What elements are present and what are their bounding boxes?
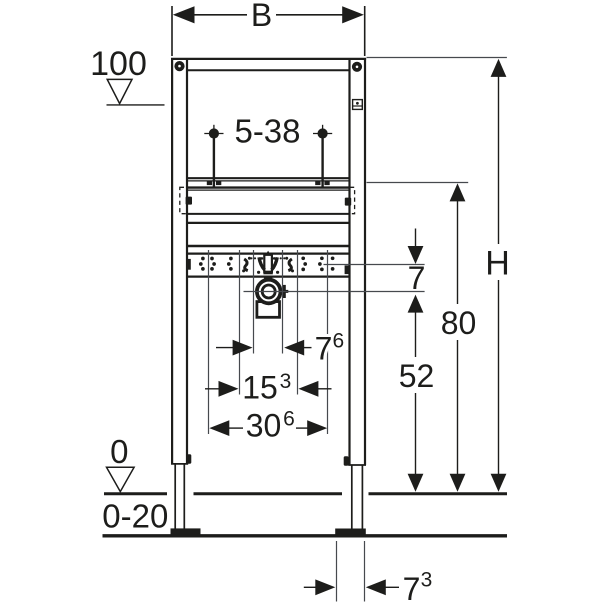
svg-text:0: 0 bbox=[110, 433, 128, 470]
channel end tab left bbox=[187, 259, 191, 270]
dimension 15-3 right arrow bbox=[298, 381, 318, 397]
dimension 80 down arrow bbox=[450, 474, 466, 492]
dimension 7-6 left arrow bbox=[216, 347, 234, 349]
dimension B arrow right bbox=[342, 6, 364, 23]
screw head top-left bbox=[174, 61, 184, 71]
svg-text:52: 52 bbox=[399, 358, 435, 394]
extension line vertical 15-3 right bbox=[297, 250, 299, 395]
svg-text:B: B bbox=[251, 0, 272, 33]
svg-text:7: 7 bbox=[408, 260, 426, 296]
extension line horizontal channel centre bbox=[324, 264, 425, 266]
dimension 30-6 arrow right bbox=[307, 420, 327, 436]
dimension B arrow left bbox=[173, 6, 195, 23]
dimension H line lower bbox=[498, 280, 500, 476]
svg-text:3: 3 bbox=[421, 569, 433, 592]
raw floor line bbox=[103, 534, 508, 537]
left foot plate bbox=[171, 528, 201, 535]
dimension B line left segment bbox=[193, 14, 247, 16]
channel end tab right bbox=[345, 265, 350, 274]
dimension 7-3 left arrow bbox=[304, 586, 317, 588]
dimension 52 down arrow bbox=[408, 474, 424, 492]
anchor point left crosshair bbox=[204, 125, 223, 140]
waste pipe neck bbox=[264, 276, 273, 282]
extension line vertical 7-6 right bbox=[282, 250, 284, 354]
svg-text:30: 30 bbox=[246, 407, 282, 443]
dimension H up arrow bbox=[491, 59, 507, 77]
anchor point right crosshair bbox=[313, 125, 332, 140]
channel S-slot left bbox=[244, 259, 248, 271]
dimension 30-6 line left bbox=[227, 427, 243, 429]
anchor rod right bbox=[321, 138, 323, 187]
dimension B extension line left bbox=[171, 6, 173, 56]
dashed outline of bracket plate bbox=[180, 187, 355, 213]
extension line 7-3 left bbox=[336, 541, 338, 602]
dimension 80 line upper bbox=[457, 200, 459, 304]
dimension 30-6 line right bbox=[296, 427, 310, 429]
level symbol triangle 100 bbox=[107, 79, 132, 103]
dimension B line right segment bbox=[276, 14, 344, 16]
right foot tube bbox=[351, 465, 353, 529]
dimension 52 line upper bbox=[415, 311, 417, 357]
svg-text:0-20: 0-20 bbox=[102, 497, 168, 534]
rod clamp right bbox=[315, 181, 320, 185]
perforated channel bottom line bbox=[188, 276, 350, 278]
svg-text:H: H bbox=[485, 244, 510, 282]
waste pipe socket inner ring bbox=[262, 285, 275, 298]
dimension H line upper bbox=[498, 75, 500, 244]
left foot tube bbox=[174, 464, 176, 529]
perforated channel top line bbox=[188, 253, 350, 255]
extension line horizontal waste centre bbox=[244, 291, 425, 293]
left rail outer line bbox=[171, 58, 173, 464]
bracket clip left bbox=[186, 197, 192, 205]
finished floor line segments bbox=[104, 492, 167, 495]
svg-text:7: 7 bbox=[403, 571, 421, 607]
svg-text:15: 15 bbox=[242, 370, 278, 406]
extension line vertical 30-6 right bbox=[327, 250, 329, 434]
dimension H down arrow bbox=[491, 474, 507, 492]
extension line 7-3 right bbox=[364, 541, 366, 602]
svg-text:3: 3 bbox=[280, 370, 292, 393]
extension line H top bbox=[367, 57, 507, 59]
extension line vertical 15-3 left bbox=[239, 250, 241, 395]
right leg locking clip bbox=[344, 456, 349, 466]
crossbar box top line bbox=[188, 222, 350, 224]
faucet fitting crown in channel bbox=[257, 251, 279, 274]
extension line vertical 7-6 left bbox=[253, 250, 255, 354]
extension line 80 top bbox=[367, 182, 469, 184]
svg-text:7: 7 bbox=[315, 330, 333, 366]
screw head top-right bbox=[352, 62, 362, 72]
bracket plate top thick line bbox=[187, 186, 351, 188]
pipe clamp cross right of waste bbox=[282, 285, 285, 298]
dimension 80 line lower bbox=[457, 340, 459, 476]
dimension 52 up arrow bbox=[408, 295, 424, 313]
dimension 15-3 left arrow bbox=[205, 388, 223, 390]
mounting rail line 1 bbox=[188, 177, 349, 179]
dimension B extension line right bbox=[364, 6, 366, 56]
channel S-slot right bbox=[288, 259, 292, 271]
frame top bar top edge bbox=[171, 58, 366, 60]
dimension 7 down arrow bbox=[408, 246, 424, 264]
waste outlet box bbox=[257, 302, 280, 318]
channel perforation dots bbox=[199, 256, 335, 271]
svg-text:5-38: 5-38 bbox=[234, 112, 300, 149]
extension line vertical 30-6 left bbox=[208, 250, 210, 434]
dimension 7 right vertical line bbox=[415, 229, 417, 249]
rod clamp left bbox=[207, 181, 212, 185]
waste pipe socket outer ring bbox=[257, 280, 281, 304]
anchor rod left bbox=[213, 138, 215, 187]
left leg tube end line bbox=[171, 463, 188, 465]
level line 100 bbox=[107, 104, 165, 106]
bracket plate bottom line bbox=[187, 213, 350, 215]
left leg locking clip bbox=[186, 454, 191, 464]
dimension 52 line lower bbox=[415, 393, 417, 476]
dimension 7-3 right arrow bbox=[366, 579, 386, 595]
left rail inner line bbox=[186, 60, 188, 464]
label plate on right rail bbox=[353, 100, 363, 110]
level symbol triangle 0 bbox=[107, 467, 135, 491]
mounting rail line 2 bbox=[188, 180, 349, 182]
dimension 30-6 arrow left bbox=[209, 420, 229, 436]
dimension 80 up arrow bbox=[450, 183, 466, 201]
right rail outer line bbox=[364, 58, 366, 465]
bracket clip right bbox=[345, 198, 351, 206]
svg-text:6: 6 bbox=[332, 330, 344, 353]
crossbar box bottom line bbox=[188, 245, 350, 248]
svg-text:80: 80 bbox=[441, 305, 477, 341]
right leg tube end line bbox=[348, 464, 366, 466]
right foot plate bbox=[335, 529, 366, 536]
bracket plate top thin line bbox=[188, 189, 349, 191]
dimension 7-6 right arrow bbox=[284, 340, 304, 356]
svg-text:6: 6 bbox=[283, 408, 295, 431]
right rail inner line bbox=[348, 60, 350, 466]
frame top bar bottom edge bbox=[187, 69, 351, 71]
svg-text:100: 100 bbox=[90, 45, 147, 83]
